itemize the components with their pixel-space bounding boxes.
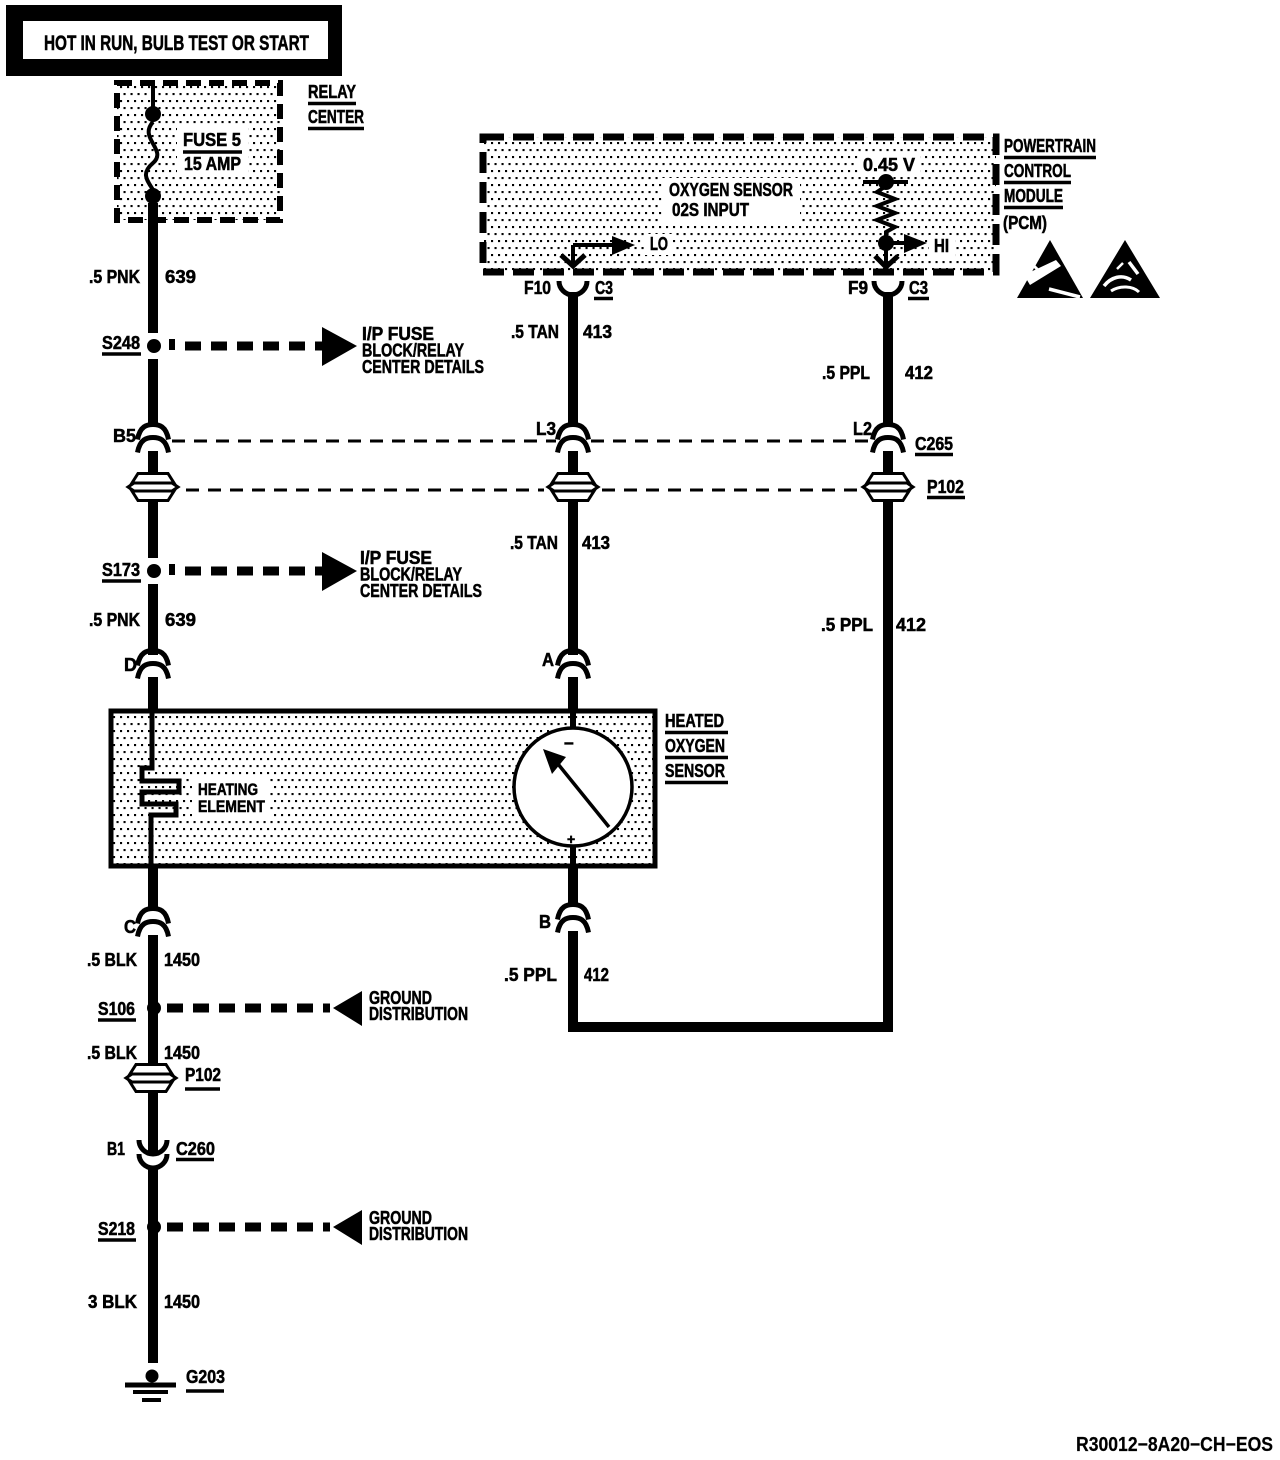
label OXYGEN SENSOR 02S INPUT (669, 180, 793, 220)
wire (568, 451, 578, 476)
label POWERTRAIN CONTROL MODULE (PCM) (1003, 136, 1096, 233)
PCM dashed box (483, 137, 996, 272)
svg-text:DISTRIBUTION: DISTRIBUTION (369, 1224, 468, 1244)
wire (148, 500, 158, 558)
svg-text:B: B (539, 912, 551, 932)
label GROUND DISTRIBUTION (369, 1208, 468, 1244)
svg-text:R30012−8A20−CH−EOS: R30012−8A20−CH−EOS (1076, 1434, 1273, 1456)
HI arrow (890, 234, 949, 256)
svg-text:.5 TAN: .5 TAN (510, 533, 558, 553)
svg-text:ELEMENT: ELEMENT (198, 797, 265, 816)
connector C (124, 909, 169, 938)
wire (sensor box to C) (148, 866, 158, 911)
svg-text:.5 BLK: .5 BLK (87, 950, 137, 970)
node bottom of fuse (145, 188, 161, 204)
svg-text:412: 412 (905, 363, 933, 383)
svg-text:S173: S173 (102, 560, 140, 580)
wire (148, 677, 158, 713)
svg-text:.5 BLK: .5 BLK (87, 1043, 137, 1063)
svg-text:.5 PNK: .5 PNK (89, 267, 140, 287)
connector F9 C3 (848, 278, 929, 299)
wire (sensor + to B) (568, 866, 578, 907)
grommet P102 left (128, 474, 178, 501)
dashed leader to I/P fuse details (185, 567, 322, 576)
label GROUND DISTRIBUTION (369, 988, 468, 1024)
label .5 TAN 413 (511, 322, 612, 342)
sensor element circle (514, 713, 632, 866)
ESD triangle symbol 1 (1017, 240, 1083, 298)
wire .5 PPL 412 (B to corner) (568, 931, 578, 1032)
label .5 PPL 412 (504, 965, 609, 985)
wire (148, 1091, 158, 1152)
svg-text:DISTRIBUTION: DISTRIBUTION (369, 1004, 468, 1024)
svg-text:B1: B1 (107, 1139, 125, 1159)
arrow to I/P fuse details (322, 552, 357, 591)
label .5 PNK 639 (89, 267, 196, 287)
svg-text:POWERTRAIN: POWERTRAIN (1004, 136, 1096, 156)
connector A (542, 650, 589, 679)
svg-text:C260: C260 (176, 1139, 215, 1159)
svg-text:P102: P102 (927, 477, 964, 497)
grommet P102 right (863, 474, 965, 501)
label .5 PNK 639 (89, 610, 196, 630)
svg-text:C265: C265 (915, 434, 953, 454)
wire .5 PPL 412 (to corner) (883, 500, 893, 1032)
svg-text:412: 412 (584, 965, 609, 985)
connector B5 (113, 425, 169, 453)
svg-text:.5 PPL: .5 PPL (822, 363, 870, 383)
node 0.45V (878, 174, 894, 190)
grommet middle (548, 474, 598, 501)
svg-text:HEATED: HEATED (665, 711, 724, 731)
svg-text:1450: 1450 (164, 1043, 200, 1063)
svg-text:.5 PPL: .5 PPL (504, 965, 557, 985)
grommet P102 bottom (126, 1065, 221, 1092)
wire (148, 451, 158, 476)
connector L3 (536, 419, 589, 453)
dashed leader to ground distribution (167, 1004, 330, 1013)
svg-text:S218: S218 (98, 1219, 135, 1239)
svg-text:S106: S106 (98, 999, 135, 1019)
label .5 PPL 412 (821, 615, 926, 635)
svg-text:OXYGEN: OXYGEN (665, 736, 725, 756)
wire .5 PPL 412 (F9 to L2) (883, 292, 893, 426)
hot-in-run banner box (6, 5, 342, 76)
label .5 BLK 1450 (87, 1043, 200, 1063)
svg-text:CENTER: CENTER (308, 107, 364, 127)
label 3 BLK 1450 (88, 1292, 200, 1312)
wire (568, 677, 578, 713)
resistor (PCM pull-up) (877, 186, 895, 240)
svg-text:CONTROL: CONTROL (1004, 161, 1071, 181)
node top of fuse (145, 106, 161, 122)
svg-text:HOT IN RUN, BULB TEST OR START: HOT IN RUN, BULB TEST OR START (44, 32, 309, 55)
svg-text:02S INPUT: 02S INPUT (672, 200, 749, 220)
dashed net line at grommet level (186, 489, 544, 492)
svg-text:639: 639 (165, 610, 196, 630)
svg-text:15 AMP: 15 AMP (184, 154, 241, 174)
arrow to ground distribution (333, 1210, 362, 1245)
svg-text:413: 413 (582, 533, 610, 553)
svg-text:.5 PNK: .5 PNK (89, 610, 140, 630)
svg-text:B5: B5 (113, 426, 136, 446)
svg-text:F9: F9 (848, 278, 868, 298)
svg-text:SENSOR: SENSOR (665, 761, 725, 781)
dashed net line at connector level (172, 440, 556, 443)
arrow to I/P fuse details (322, 327, 357, 366)
wire (883, 451, 893, 476)
splice S106 (98, 999, 161, 1020)
label FUSE 5 / 15 AMP (183, 130, 242, 174)
svg-text:A: A (542, 650, 554, 670)
svg-text:413: 413 (583, 322, 612, 342)
label RELAY CENTER (308, 82, 364, 129)
svg-text:.5 TAN: .5 TAN (511, 322, 559, 342)
svg-text:−: − (564, 734, 574, 753)
ground G203 (125, 1367, 225, 1400)
connector B (539, 905, 589, 933)
label .5 PPL 412 (822, 363, 933, 383)
ESD triangle symbol 2 (1090, 240, 1160, 298)
heating element (142, 713, 179, 866)
wire into fuse (151, 83, 155, 110)
svg-text:C3: C3 (909, 278, 928, 298)
label HEATING ELEMENT (198, 780, 265, 816)
svg-text:F10: F10 (524, 278, 551, 298)
svg-text:0.45 V: 0.45 V (863, 155, 915, 175)
wire (148, 1166, 158, 1363)
fuse block (relay center) dashed box (117, 83, 280, 220)
splice S173 (102, 560, 175, 581)
svg-text:RELAY: RELAY (308, 82, 356, 102)
LO arrow (561, 234, 668, 267)
splice S248 (102, 333, 175, 354)
heated oxygen sensor box (111, 711, 655, 866)
svg-text:3 BLK: 3 BLK (88, 1292, 137, 1312)
svg-text:MODULE: MODULE (1004, 186, 1063, 206)
svg-text:G203: G203 (186, 1367, 225, 1387)
svg-text:C: C (124, 917, 136, 937)
splice S218 (98, 1219, 161, 1240)
svg-text:1450: 1450 (164, 1292, 200, 1312)
connector L2 C265 (853, 419, 953, 455)
svg-text:S248: S248 (102, 333, 140, 353)
svg-text:L3: L3 (536, 419, 556, 439)
wire horizontal joining PPL run (568, 1022, 893, 1032)
label .5 BLK 1450 (87, 950, 200, 970)
wire .5 TAN 413 (to A) (568, 500, 578, 655)
wire .5 TAN 413 (F10 to L3) (568, 292, 578, 426)
arrow to ground distribution (333, 991, 362, 1026)
svg-text:OXYGEN SENSOR: OXYGEN SENSOR (669, 180, 793, 200)
svg-text:FUSE 5: FUSE 5 (183, 130, 241, 150)
svg-text:(PCM): (PCM) (1003, 213, 1047, 233)
dashed leader to ground distribution (167, 1223, 330, 1232)
svg-text:L2: L2 (853, 419, 872, 439)
label HEATED OXYGEN SENSOR (665, 711, 728, 783)
wire to F9 with down arrow (875, 243, 898, 267)
svg-text:.5 PPL: .5 PPL (821, 615, 873, 635)
svg-text:LO: LO (650, 234, 668, 254)
label I/P FUSE BLOCK/RELAY CENTER DETAILS (360, 548, 482, 601)
wire .5 BLK 1450 (148, 935, 158, 1070)
connector D (124, 651, 169, 679)
label I/P FUSE BLOCK/RELAY CENTER DETAILS (362, 324, 484, 377)
connector F10 C3 (524, 278, 613, 299)
svg-text:P102: P102 (185, 1065, 221, 1085)
svg-text:639: 639 (165, 267, 196, 287)
connector B1 C260 (107, 1139, 215, 1168)
node HI (878, 235, 894, 251)
0.45V reference rail (863, 180, 908, 184)
svg-text:CENTER DETAILS: CENTER DETAILS (362, 357, 484, 377)
svg-text:CENTER DETAILS: CENTER DETAILS (360, 581, 482, 601)
wire .5 PNK 639 (fuse to B5) (148, 203, 158, 333)
svg-text:1450: 1450 (164, 950, 200, 970)
svg-text:C3: C3 (595, 278, 613, 298)
svg-text:HI: HI (934, 236, 949, 256)
dashed leader to I/P fuse details (185, 342, 322, 351)
label .5 TAN 413 (510, 533, 610, 553)
fuse F5 element (146, 122, 157, 190)
svg-text:412: 412 (896, 615, 926, 635)
svg-text:+: + (567, 831, 575, 847)
